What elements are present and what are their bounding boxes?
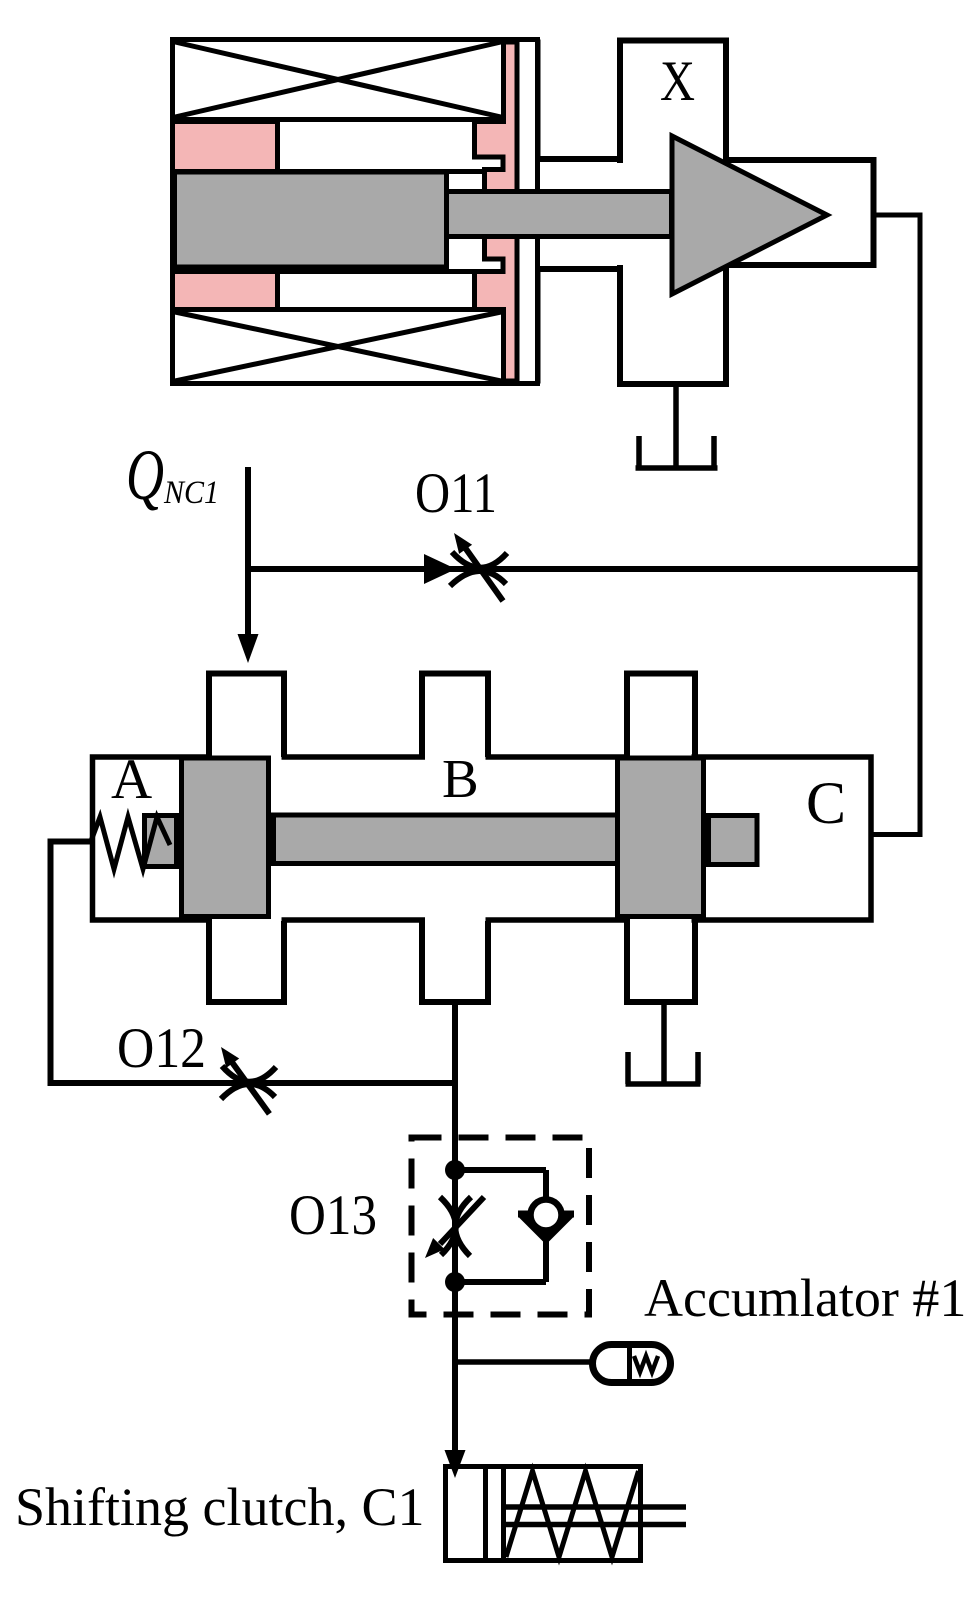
svg-text:A: A bbox=[111, 748, 152, 811]
svg-text:Q: Q bbox=[126, 435, 164, 515]
svg-text:O12: O12 bbox=[117, 1017, 206, 1080]
svg-text:O11: O11 bbox=[415, 462, 497, 525]
svg-text:B: B bbox=[442, 748, 479, 809]
svg-text:O13: O13 bbox=[289, 1184, 377, 1247]
svg-text:Shifting clutch, C1: Shifting clutch, C1 bbox=[15, 1477, 424, 1537]
svg-text:C: C bbox=[806, 770, 846, 836]
svg-text:X: X bbox=[660, 50, 695, 113]
svg-text:NC1: NC1 bbox=[163, 475, 219, 511]
svg-text:Accumlator #1: Accumlator #1 bbox=[644, 1268, 966, 1328]
